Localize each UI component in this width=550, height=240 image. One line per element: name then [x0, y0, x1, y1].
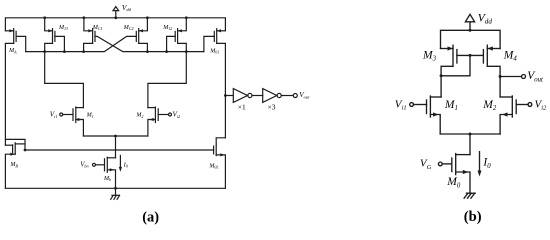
transistor M13: [45, 18, 55, 44]
node dot left bus M13 drain: [43, 50, 46, 53]
svg-text:M0L: M0L: [208, 164, 219, 170]
wire: M01 gate to right bus end: [204, 36, 214, 51]
transistor Mb tail (a): [93, 157, 116, 188]
svg-text:VG: VG: [420, 157, 432, 170]
node dot rail VDD stub: [114, 16, 117, 19]
node dot gate bus mid: [469, 54, 472, 57]
wire: MA drain branch to gate bus: [5, 139, 25, 150]
wire: M12 gate diode tap: [167, 36, 176, 51]
node dot right bus MC2 drain: [146, 50, 149, 53]
wire: VDD rail (a): [5, 18, 225, 31]
terminal Vout (b): [522, 75, 526, 79]
node dot inverter tap: [224, 94, 227, 97]
wire: MC2 gate cross-couple diagonal to left bus: [26, 36, 137, 51]
svg-text:Vdd: Vdd: [478, 12, 493, 25]
current arrow I0 (a): [119, 155, 122, 171]
transistor M2 (a): [148, 107, 172, 136]
transistor M3 (b): [441, 45, 457, 66]
wire: tail down to M0: [469, 134, 471, 155]
wire: Vout tap (b): [500, 76, 521, 78]
svg-text:M1: M1: [444, 99, 458, 112]
wire: right bus down to M2 drain: [148, 52, 186, 108]
svg-text:×1: ×1: [238, 103, 246, 112]
node dot rail MC1: [83, 16, 86, 19]
svg-text:Vout: Vout: [527, 70, 544, 83]
node dot right bus M12 drain: [185, 50, 188, 53]
wire: M13 drain to bus: [45, 43, 53, 51]
wire: MA gate to left bus: [16, 36, 26, 51]
svg-text:M1: M1: [86, 113, 94, 119]
svg-text:M2: M2: [482, 99, 497, 112]
svg-text:I0: I0: [482, 156, 491, 169]
node dot M3 drain tap: [440, 74, 443, 77]
svg-text:Vi2: Vi2: [535, 99, 548, 112]
node dot left bus M13 gate: [63, 50, 66, 53]
svg-text:×3: ×3: [268, 103, 276, 112]
node dot rail M12: [185, 16, 188, 19]
wire: mirror diode tap: [441, 55, 470, 75]
svg-text:MB: MB: [9, 162, 18, 168]
svg-text:M2: M2: [135, 113, 143, 119]
ground (b): [466, 192, 475, 194]
transistor M1 (a): [60, 107, 84, 136]
node dot right bus M12 gate: [165, 50, 168, 53]
transistor M4 (b): [483, 45, 500, 66]
wire: tail join: [83, 135, 147, 137]
svg-text:Mb: Mb: [103, 176, 111, 182]
wire: left bus down to M1 drain: [45, 52, 84, 108]
node dot gate-bus start: [24, 149, 27, 152]
svg-text:M3: M3: [422, 50, 437, 63]
node dot Vout tap (b): [499, 75, 502, 78]
wire: M13 gate diode tap: [55, 36, 65, 51]
transistor M2 (b): [500, 96, 532, 134]
svg-text:(a): (a): [142, 209, 159, 225]
power VDD symbol (b): [465, 14, 474, 30]
wire: MC1 gate cross-couple diagonal to right bus: [95, 36, 204, 51]
wire: M12 drain to bus: [178, 43, 187, 51]
node dot tail (b): [469, 133, 472, 136]
wire: tail down to Mb: [115, 136, 117, 158]
node dot rail MC2: [146, 16, 149, 19]
transistor M0 (b): [438, 154, 470, 194]
svg-text:M0: M0: [446, 176, 461, 189]
inverter x1: [233, 89, 252, 103]
svg-text:Vi2: Vi2: [173, 111, 181, 119]
ground (a): [111, 188, 120, 199]
transistor MB: [5, 143, 25, 189]
svg-text:(b): (b): [464, 209, 482, 225]
svg-text:M13: M13: [58, 25, 68, 31]
wire: MC1 drain to left bus: [84, 43, 93, 51]
transistor M1 (b): [410, 96, 441, 134]
node dot tail join: [114, 135, 117, 138]
wire: M3 drain down to M1 drain: [441, 66, 453, 97]
wire: M4 drain down to M2 drain: [487, 66, 500, 97]
svg-text:M01: M01: [209, 48, 219, 54]
wire: VDD rail (b): [441, 30, 501, 48]
transistor M12: [175, 18, 186, 44]
svg-text:MC1: MC1: [92, 25, 103, 31]
svg-text:Vout: Vout: [299, 91, 310, 99]
svg-text:Vi1: Vi1: [50, 111, 58, 119]
svg-text:I0: I0: [123, 162, 129, 169]
wire: MA drain long left vertical: [5, 43, 13, 145]
svg-text:M4: M4: [503, 50, 518, 63]
wire: long gate bus MB to M0L: [25, 149, 214, 151]
transistor MA: [5, 29, 16, 44]
svg-text:M12: M12: [162, 25, 172, 31]
wire: gate bus M3-M4: [457, 54, 483, 56]
inverter x3: [263, 89, 282, 103]
transistor MC1: [84, 18, 95, 44]
svg-text:Vdd: Vdd: [122, 3, 132, 12]
wire: M01 drain long right vertical: [217, 43, 226, 137]
power VDD symbol (a): [113, 7, 119, 18]
wire: inverter2 to Vout terminal: [281, 95, 293, 97]
wire: bottom rail (a): [5, 187, 225, 189]
transistor M01: [214, 29, 225, 44]
svg-text:Vi1: Vi1: [395, 99, 407, 112]
wire: tail join (b): [440, 133, 500, 135]
node dot rail VDD stub (b): [469, 29, 472, 32]
svg-text:MA: MA: [8, 48, 17, 54]
current arrow I0 (b): [478, 152, 482, 177]
wire: inverter1 to inverter2: [252, 95, 263, 97]
terminal Vout (a): [293, 94, 297, 98]
wire: MC2 drain to right bus: [139, 43, 148, 51]
node dot rail M13: [43, 16, 46, 19]
svg-text:MC2: MC2: [123, 25, 134, 31]
node dot left bus MC1 drain: [82, 50, 85, 53]
wire: tap to inverter 1: [225, 95, 233, 97]
transistor MC2: [136, 18, 147, 44]
svg-text:Vbn: Vbn: [80, 161, 88, 168]
node dot bottom rail: [114, 187, 117, 190]
transistor M0L: [214, 138, 226, 189]
